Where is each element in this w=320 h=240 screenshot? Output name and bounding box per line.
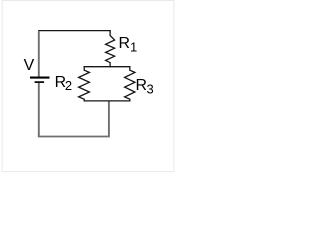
- svg-text:R: R: [119, 35, 130, 52]
- svg-text:2: 2: [65, 78, 72, 93]
- svg-text:3: 3: [147, 81, 154, 96]
- svg-text:V: V: [24, 57, 35, 74]
- svg-text:1: 1: [130, 39, 137, 54]
- svg-text:R: R: [136, 77, 147, 94]
